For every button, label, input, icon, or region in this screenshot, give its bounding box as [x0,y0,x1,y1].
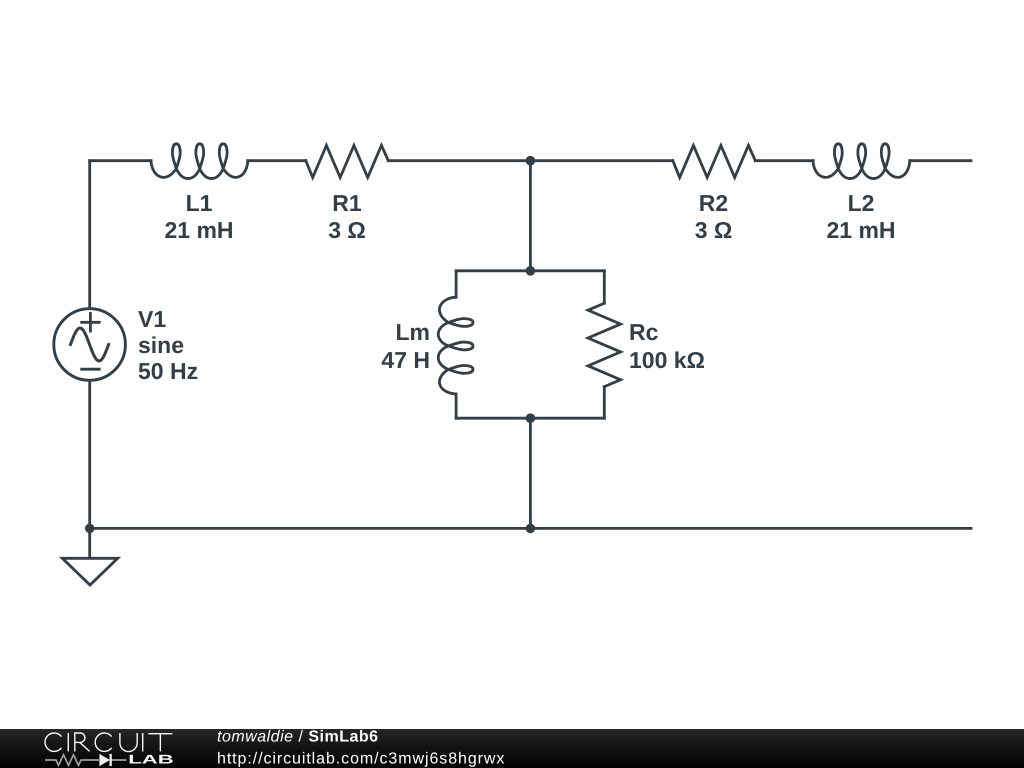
wire shunt box left vertical lower [455,394,458,418]
resistor R1 [306,145,389,177]
V1 sine wave [71,328,109,361]
logo letter U [120,733,137,752]
wire shunt box top rail [456,269,604,272]
voltage source V1 circle [54,309,126,381]
wire shunt box right vertical lower [603,387,606,419]
node dot: shunt box bottom [526,413,536,423]
wire left vertical below V1 [88,382,91,529]
svg-text:http://circuitlab.com/c3mwj6s8: http://circuitlab.com/c3mwj6s8hgrwx [217,750,505,767]
node dot: ground junction [85,524,95,534]
wire top rail segment 2 (between L1 and R1) [248,159,306,162]
node dot: top rail junction [526,156,536,166]
V1 plus sign [82,314,100,332]
wire top rail segment 1 [90,159,151,162]
logo letter R [75,733,90,751]
wire shunt box left vertical upper [455,271,458,297]
resistor R2 [673,145,756,177]
logo letter I (second) [142,733,144,751]
ground symbol [62,528,117,585]
wire top rail segment 3 (R1 to R2, through node) [388,159,673,162]
logo letter I [67,733,69,751]
wire top rail segment 4 (between R2 and L2) [755,159,813,162]
resistor Rc (vertical) [588,303,621,387]
wire bottom rail [90,527,971,530]
wire middle vertical top (node to shunt box) [529,161,532,271]
inductor L2 [813,144,910,179]
node dot: shunt box top [526,266,536,276]
logo letter C (second) [95,733,111,751]
logo letter C [45,733,61,751]
wire left vertical above V1 [88,161,91,308]
footer bar [0,729,1024,768]
wire shunt box bottom rail [456,417,604,420]
wire middle vertical bottom (shunt box to bottom rail) [529,418,532,528]
logo doodle: diode [99,754,111,766]
svg-text:LAB: LAB [128,752,174,766]
node dot: bottom rail junction [526,524,536,534]
logo doodle: resistor zigzag wire [45,755,126,766]
wire shunt box right vertical upper [603,271,606,303]
V1 minus sign [82,368,100,371]
logo letter T [148,734,172,752]
svg-text:tomwaldie / SimLab6: tomwaldie / SimLab6 [217,729,379,746]
inductor L1 [151,144,248,179]
inductor Lm (vertical) [438,297,473,394]
wire top rail segment 5 (L2 to right end) [910,159,971,162]
